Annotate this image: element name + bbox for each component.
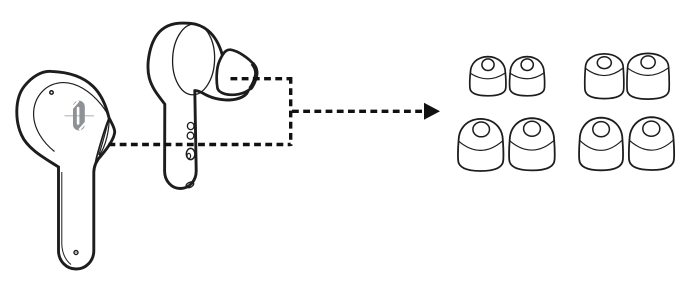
arrow head bbox=[424, 103, 440, 120]
ear tip large 4 bbox=[629, 117, 674, 170]
right stem detail: oval port bbox=[186, 148, 195, 159]
left earbud inner contour bbox=[34, 83, 109, 152]
dashed arrow shaft bbox=[292, 110, 425, 113]
ear tip small 1 bbox=[470, 57, 506, 96]
left earbud ear-tip leaf arcs bbox=[95, 118, 109, 167]
right earbud head + stem silhouette bbox=[148, 23, 248, 188]
dashed callout: bottom line bbox=[109, 143, 291, 146]
right stem detail: circle 2 bbox=[187, 132, 194, 139]
ear tip large 1 bbox=[458, 119, 503, 171]
dashed callout: top line bbox=[231, 77, 291, 80]
logo crossbar line bbox=[65, 115, 95, 117]
left earbud outer silhouette bbox=[17, 71, 115, 269]
left earbud stem inner line bbox=[62, 172, 71, 265]
ear tip medium 2 bbox=[627, 53, 669, 99]
ear tip thick rim bbox=[250, 63, 256, 88]
right stem detail: bottom oval bbox=[185, 181, 195, 189]
dashed callout: right vertical line bbox=[289, 77, 292, 146]
left earbud mic hole bbox=[50, 91, 53, 94]
ear tip medium 1 bbox=[585, 54, 624, 99]
ear tip small 2 bbox=[510, 57, 545, 96]
right stem detail: circle 1 bbox=[187, 122, 194, 129]
right earbud ear tip bbox=[217, 50, 257, 95]
logo capsule (TaoTronics) bbox=[71, 101, 86, 131]
right earbud inner face ellipse bbox=[171, 23, 215, 95]
ear tip large 3 bbox=[579, 118, 623, 171]
left earbud bottom hole bbox=[74, 251, 78, 255]
ear tip large 2 bbox=[509, 118, 555, 170]
